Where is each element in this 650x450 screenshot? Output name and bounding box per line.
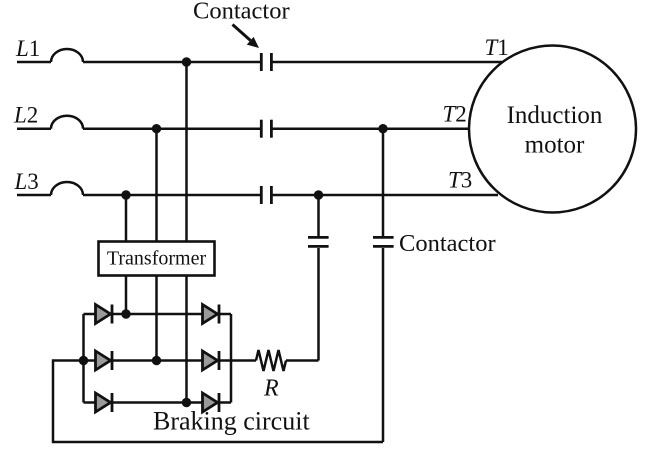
- svg-text:Induction: Induction: [507, 102, 603, 129]
- svg-text:Transformer: Transformer: [107, 248, 207, 270]
- svg-text:T1: T1: [485, 35, 509, 60]
- svg-text:R: R: [263, 376, 279, 402]
- svg-text:T2: T2: [443, 102, 467, 127]
- svg-text:T3: T3: [448, 168, 472, 193]
- svg-text:L3: L3: [14, 169, 39, 194]
- svg-text:Contactor: Contactor: [399, 230, 496, 257]
- svg-text:motor: motor: [525, 132, 585, 159]
- svg-text:L2: L2: [13, 103, 38, 128]
- svg-text:Braking circuit: Braking circuit: [153, 407, 310, 436]
- svg-text:Contactor: Contactor: [193, 0, 290, 25]
- svg-text:L1: L1: [15, 36, 40, 61]
